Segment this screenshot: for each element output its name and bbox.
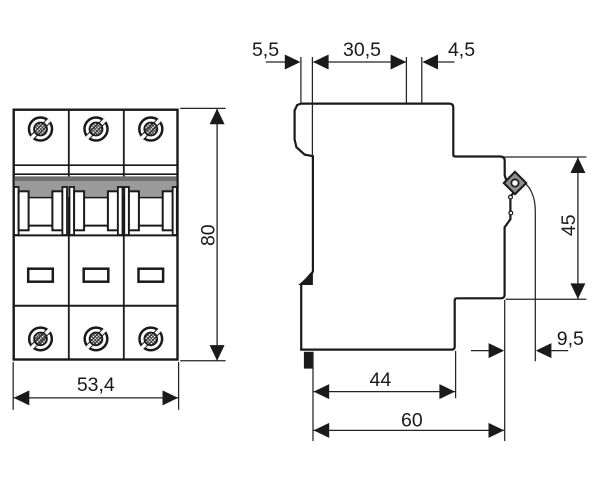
toggle area dark gray top strip	[15, 176, 177, 181]
terminal recess arc from clamp to rail level	[525, 184, 535, 362]
clamp screw diamond	[504, 172, 526, 194]
screw terminal bottom pole 2	[84, 327, 108, 351]
svg-text:53,4: 53,4	[77, 374, 115, 396]
clip plate hole lower	[509, 211, 513, 215]
dimension 53,4 arrow right	[163, 390, 179, 405]
dimension 80 extension line top	[180, 107, 225, 109]
dimension 30,5 arrow left	[313, 55, 329, 70]
front view body outline	[14, 110, 178, 360]
screw terminal bottom pole 1	[29, 327, 53, 351]
extension line between 5,5 and 30,5	[311, 57, 313, 156]
toggle handle pole 1	[14, 187, 67, 235]
toggle handle pole 2	[70, 187, 123, 235]
svg-text:44: 44	[370, 369, 392, 391]
svg-text:5,5: 5,5	[252, 39, 279, 61]
screw terminal top pole 3	[139, 117, 163, 141]
svg-text:4,5: 4,5	[448, 39, 475, 61]
dimension 80 line	[216, 109, 218, 360]
svg-text:9,5: 9,5	[557, 328, 584, 350]
screw terminal top pole 2	[84, 117, 108, 141]
dimension 30,5 arrow right	[391, 55, 407, 70]
dimension 9,5 leader line left	[471, 350, 490, 352]
dimension 53,4 arrow left	[14, 390, 30, 405]
dimension 4,5 arrow	[422, 55, 438, 70]
dimension 45 arrow up	[570, 157, 585, 173]
clamp screw center hole	[511, 179, 518, 186]
clip plate hole upper	[509, 195, 513, 199]
DIN rail clip foot (filled)	[304, 352, 314, 369]
horizontal line below toggle area	[13, 234, 178, 236]
extension line at 4,5 right	[421, 57, 423, 103]
dimension 44 arrow left	[314, 384, 330, 399]
window pole 2	[84, 269, 109, 282]
svg-text:45: 45	[558, 214, 580, 236]
dimension 60 line	[313, 429, 504, 431]
screw terminal top pole 1	[28, 117, 52, 141]
dimension 44 line	[313, 391, 455, 393]
dimension 53,4 extension line right	[178, 362, 180, 410]
lower front chamfer (filled)	[298, 272, 313, 285]
dimension 45 extension line top	[504, 156, 586, 158]
screw terminal bottom pole 3	[139, 327, 163, 351]
dimension 60 arrow left	[314, 423, 330, 438]
toggle handle pole 3	[124, 187, 177, 235]
dimension 45 arrow down	[570, 283, 585, 299]
horizontal line below window row	[13, 305, 178, 307]
dimension 44 extension line right	[455, 351, 457, 398]
horizontal line above toggle area	[13, 173, 178, 175]
side view body outline	[295, 104, 514, 350]
dimension 44 arrow right	[439, 384, 455, 399]
extension line between 30,5 and 4,5	[405, 57, 407, 103]
dimension 5,5 arrow	[285, 55, 301, 70]
svg-text:30,5: 30,5	[343, 39, 381, 61]
dimension 60 extension line right	[504, 300, 506, 441]
dimension 53,4 line	[14, 397, 179, 399]
svg-text:60: 60	[401, 409, 423, 431]
dimension 9,5 arrow pointing right	[489, 343, 505, 358]
dimension 53,4 extension line left	[12, 362, 14, 410]
toggle area gray band	[15, 176, 177, 197]
dimension 60 arrow right	[489, 423, 505, 438]
dimension 45 extension line bottom	[506, 298, 587, 300]
horizontal line below top terminal row	[13, 164, 178, 166]
dimension 4,5 leader line	[438, 61, 455, 63]
pole divider line 1	[68, 110, 70, 360]
dimension 9,5 leader line right	[551, 350, 568, 352]
window pole 1	[28, 269, 53, 282]
dimension 5,5 leader line	[266, 61, 286, 63]
dimension 9,5 arrow pointing left	[536, 343, 552, 358]
dimension 44/60 extension line left	[312, 352, 314, 441]
pole divider line 2	[123, 110, 125, 360]
dimension 80 arrow down	[210, 345, 225, 361]
dimension 30,5 line	[313, 61, 405, 63]
window pole 3	[139, 269, 164, 282]
dimension 80 extension line bottom	[180, 360, 225, 362]
dimension 80 arrow up	[210, 109, 225, 125]
toggle area gray band bottom edge	[15, 197, 177, 199]
dimension 45 line	[577, 158, 579, 299]
extension line at 5,5 left	[300, 57, 302, 103]
svg-text:80: 80	[197, 224, 219, 246]
